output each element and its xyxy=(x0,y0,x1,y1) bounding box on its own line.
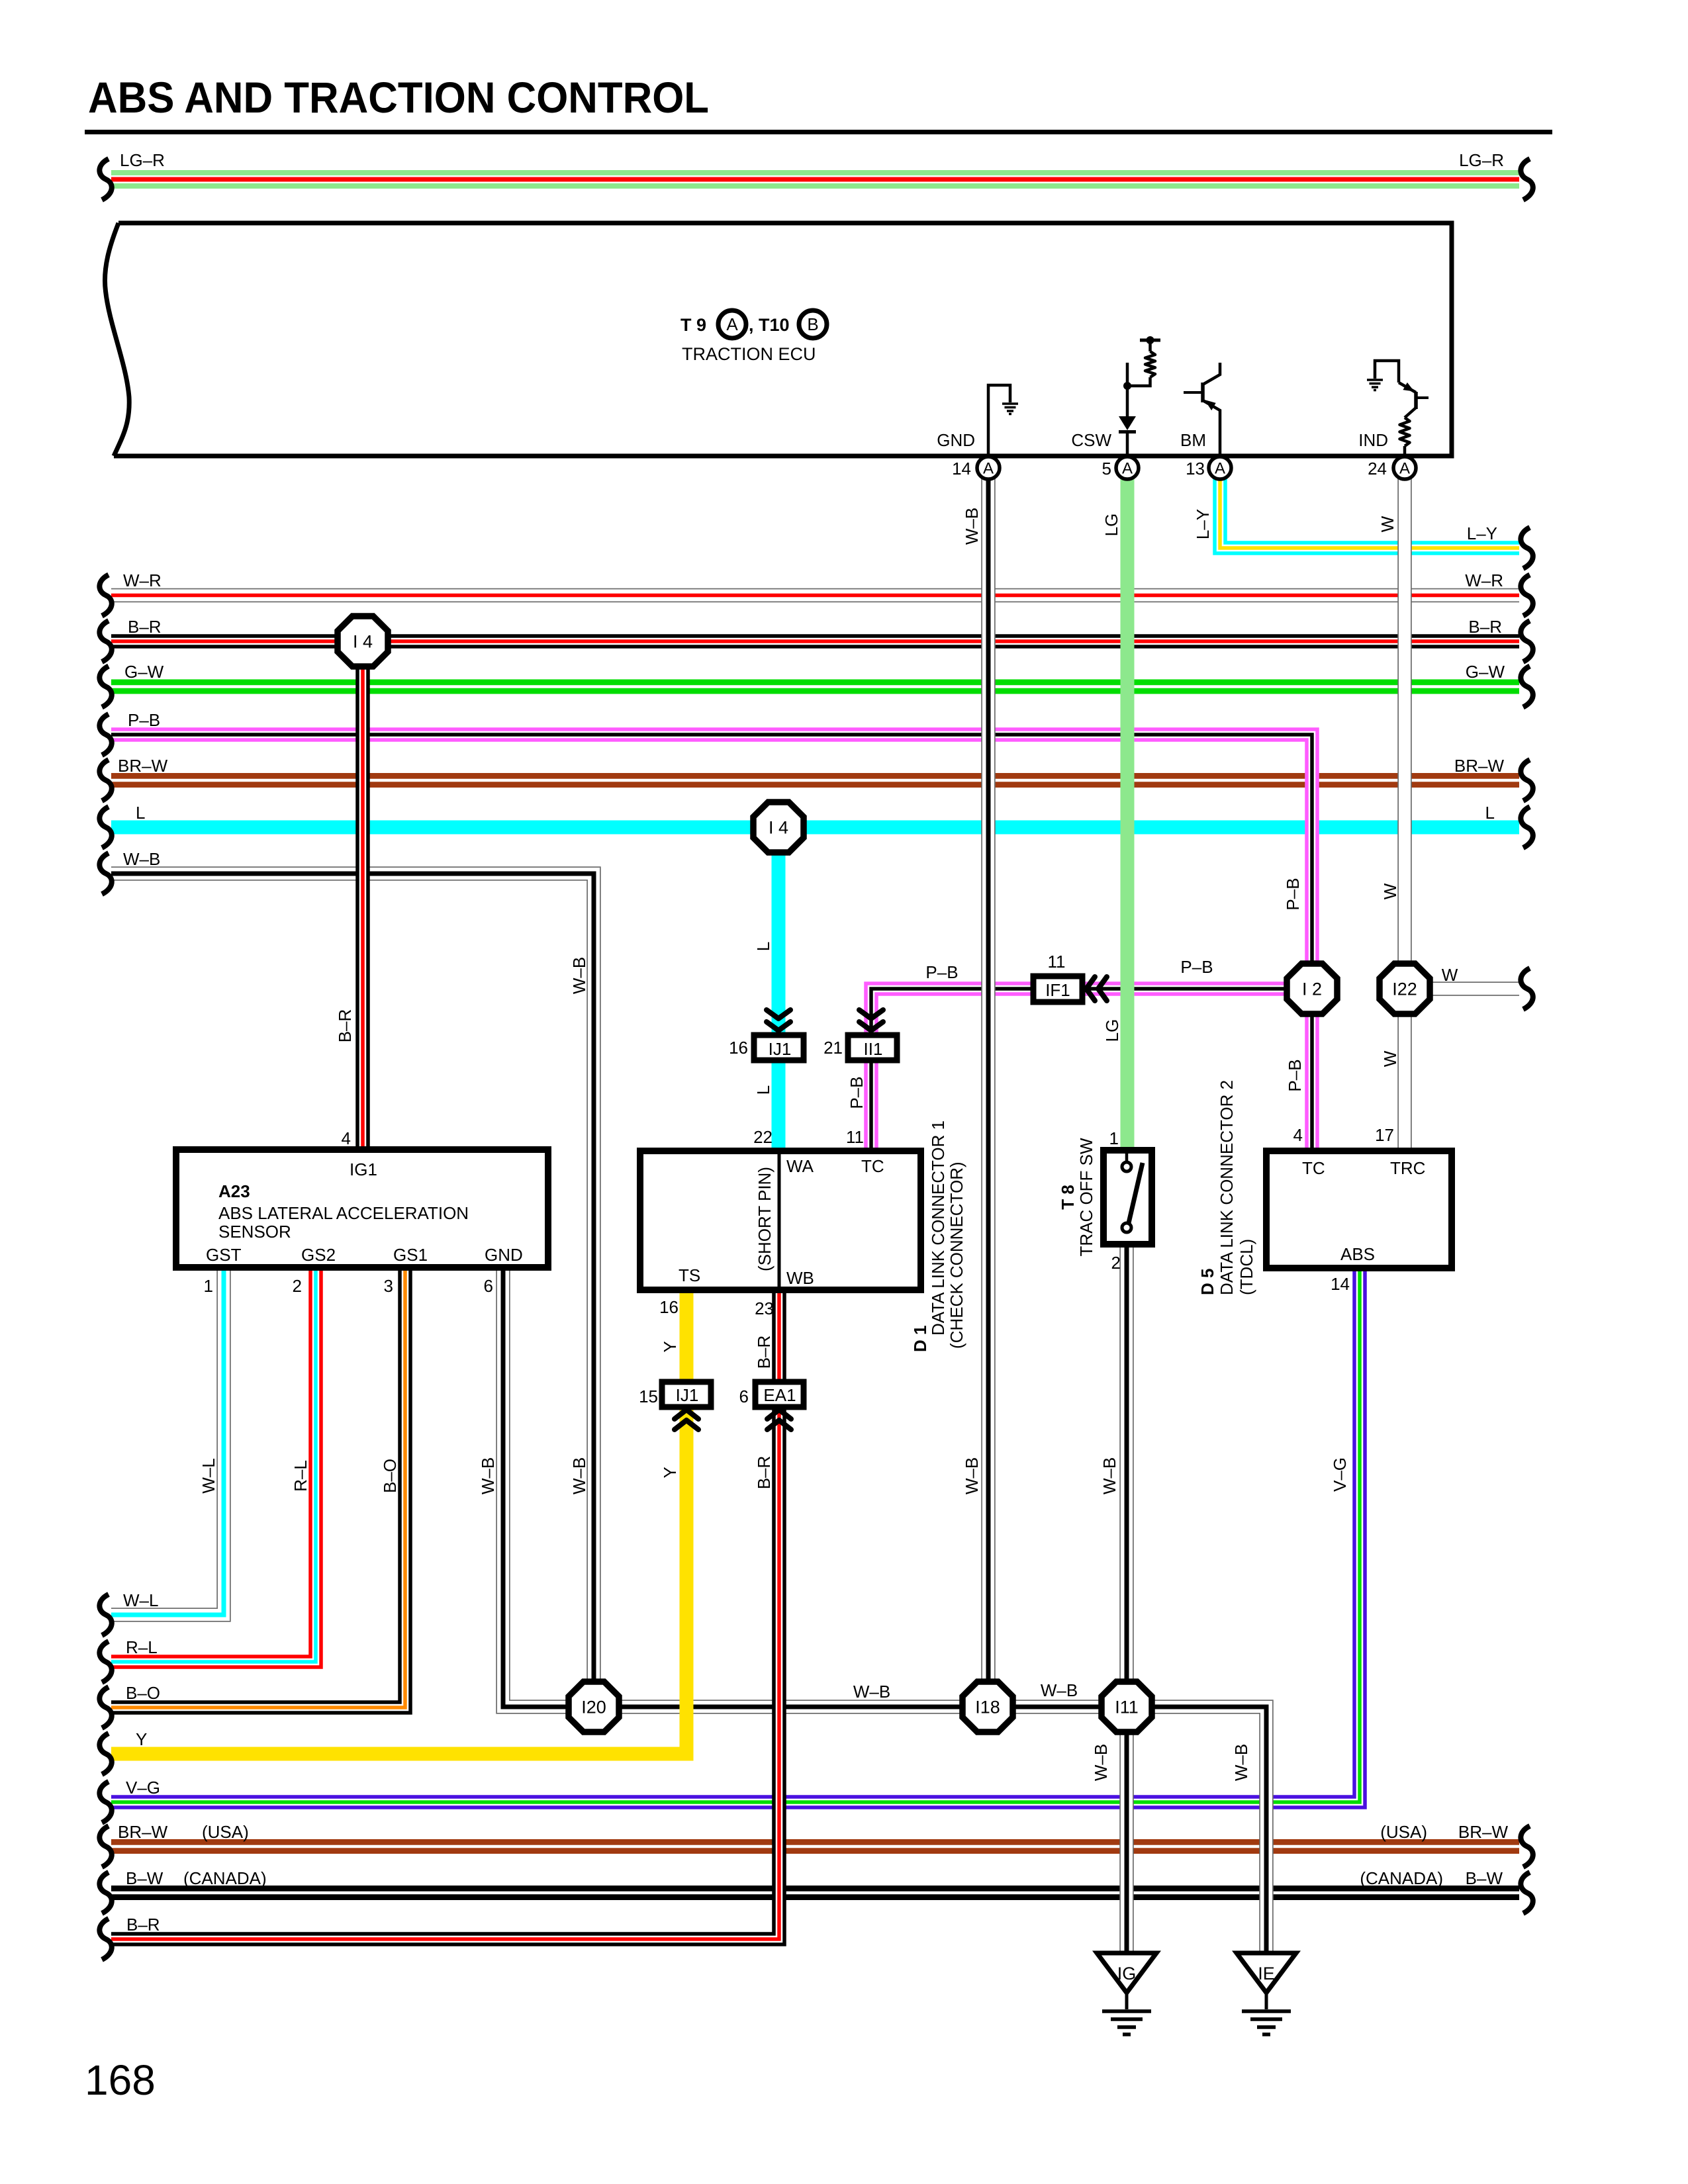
svg-text:(USA): (USA) xyxy=(1380,1822,1427,1842)
svg-text:IJ1: IJ1 xyxy=(676,1385,699,1405)
D1 data link connector 1 box xyxy=(640,1151,921,1290)
svg-text:14: 14 xyxy=(952,459,971,478)
svg-text:IG: IG xyxy=(1117,1964,1137,1983)
vertical net labels xyxy=(199,508,1400,1781)
wire W-L A23 GST to left xyxy=(111,1267,224,1615)
D1 rotated labels xyxy=(910,1120,966,1352)
svg-text:L: L xyxy=(753,1085,773,1095)
svg-text:IG1: IG1 xyxy=(350,1160,377,1179)
title rule xyxy=(85,130,1552,134)
svg-text:11: 11 xyxy=(1048,952,1066,972)
svg-text:P–B: P–B xyxy=(1285,1059,1305,1091)
connector I4 xyxy=(753,802,804,852)
T8 labels xyxy=(1058,1128,1121,1273)
wire Y D1 TS to IJ1 to left xyxy=(111,1290,686,1754)
ECU pin 5 CSW xyxy=(1071,430,1139,479)
svg-text:(CHECK CONNECTOR): (CHECK CONNECTOR) xyxy=(947,1161,966,1349)
svg-text:EA1: EA1 xyxy=(763,1385,796,1405)
svg-text:14: 14 xyxy=(1331,1274,1350,1294)
svg-text:L–Y: L–Y xyxy=(1467,523,1497,543)
traction ECU box T9/T10 xyxy=(105,223,1452,456)
svg-text:R–L: R–L xyxy=(126,1637,158,1657)
svg-text:B–R: B–R xyxy=(1468,617,1502,637)
svg-text:I18: I18 xyxy=(975,1698,1000,1717)
D5 pin numbers xyxy=(1293,1125,1394,1294)
junction IJ1 lower xyxy=(639,1382,711,1407)
ECU pin 14 GND xyxy=(937,430,1000,479)
svg-text:(CANADA): (CANADA) xyxy=(183,1868,267,1888)
svg-text:15: 15 xyxy=(639,1387,658,1406)
net labels right buses xyxy=(1360,150,1508,1888)
svg-text:W–R: W–R xyxy=(1465,570,1503,590)
svg-text:B–O: B–O xyxy=(380,1459,400,1493)
svg-text:V–G: V–G xyxy=(1330,1457,1350,1492)
svg-text:TS: TS xyxy=(679,1265,700,1285)
svg-text:B–W: B–W xyxy=(126,1868,164,1888)
wire W-B T8 to I11 to IG ground xyxy=(1119,1244,1134,1956)
wire W-B A23 GND to I20 xyxy=(503,1267,594,1707)
wire BR-W bottom bus (USA) xyxy=(111,1839,1519,1854)
ECU internal diode/resistor at CSW xyxy=(1119,336,1160,456)
svg-text:16: 16 xyxy=(729,1038,748,1058)
svg-text:22: 22 xyxy=(753,1127,773,1147)
svg-text:GS1: GS1 xyxy=(393,1245,428,1265)
svg-text:IND: IND xyxy=(1358,430,1388,450)
svg-text:L: L xyxy=(753,942,773,951)
svg-text:IF1: IF1 xyxy=(1045,980,1070,1000)
svg-text:TC: TC xyxy=(861,1156,884,1176)
svg-text:B–R: B–R xyxy=(754,1336,774,1369)
svg-text:4: 4 xyxy=(1293,1125,1303,1145)
wire B-O A23 GS1 to left xyxy=(111,1267,405,1707)
svg-text:W–B: W–B xyxy=(1091,1744,1111,1781)
svg-text:B–R: B–R xyxy=(754,1456,774,1490)
connector I20 xyxy=(569,1682,619,1732)
svg-text:ABS AND TRACTION CONTROL: ABS AND TRACTION CONTROL xyxy=(88,73,709,122)
svg-text:W–B: W–B xyxy=(962,508,982,545)
svg-text:IJ1: IJ1 xyxy=(769,1039,792,1059)
svg-text:DATA LINK CONNECTOR 2: DATA LINK CONNECTOR 2 xyxy=(1217,1080,1237,1295)
svg-text:5: 5 xyxy=(1102,459,1111,478)
svg-text:BR–W: BR–W xyxy=(118,756,168,776)
svg-text:W: W xyxy=(1380,883,1400,899)
svg-text:P–B: P–B xyxy=(1283,878,1303,910)
chevrons above IJ1 xyxy=(767,1010,790,1030)
wire B-R D1 WB to EA1 to left xyxy=(111,1290,779,1939)
svg-text:I 4: I 4 xyxy=(769,818,788,838)
svg-text:DATA LINK CONNECTOR 1: DATA LINK CONNECTOR 1 xyxy=(928,1120,948,1336)
wire R-L A23 GS2 to left xyxy=(111,1267,316,1662)
junction IJ1 upper xyxy=(729,1035,804,1060)
wire W ECU IND to I22 to D5 TRC xyxy=(1397,456,1412,1151)
svg-text:21: 21 xyxy=(823,1038,843,1058)
svg-text:I 4: I 4 xyxy=(353,632,373,652)
svg-text:G–W: G–W xyxy=(1466,662,1505,682)
wire BR-W bus xyxy=(111,773,1519,788)
wire L bus xyxy=(111,821,1519,835)
svg-text:168: 168 xyxy=(85,2056,156,2104)
A23 ABS lateral acceleration sensor box xyxy=(176,1150,548,1267)
wire B-R bus xyxy=(111,634,1519,649)
svg-text:W–B: W–B xyxy=(123,849,160,869)
svg-text:W–B: W–B xyxy=(1100,1457,1119,1494)
svg-text:Y: Y xyxy=(660,1341,680,1352)
harness breaks left xyxy=(99,159,111,1960)
wire L-Y ECU BM to right xyxy=(1220,456,1519,548)
svg-text:A: A xyxy=(726,314,738,334)
svg-text:GS2: GS2 xyxy=(301,1245,336,1265)
svg-text:6: 6 xyxy=(484,1276,493,1296)
svg-text:A: A xyxy=(1122,460,1133,478)
svg-text:LG–R: LG–R xyxy=(1459,150,1504,170)
wire W-B ECU GND to I18 xyxy=(981,456,996,1707)
svg-text:P–B: P–B xyxy=(925,962,958,982)
svg-text:WA: WA xyxy=(786,1156,814,1176)
chevrons below IJ1 lower xyxy=(675,1410,698,1430)
svg-text:(TDCL): (TDCL) xyxy=(1237,1239,1256,1295)
svg-text:CSW: CSW xyxy=(1071,430,1111,450)
junction EA1 xyxy=(739,1382,804,1407)
svg-text:(USA): (USA) xyxy=(202,1822,249,1842)
svg-text:W–L: W–L xyxy=(199,1458,218,1493)
svg-text:2: 2 xyxy=(1111,1253,1121,1273)
svg-text:A: A xyxy=(1399,460,1410,478)
connector I11 xyxy=(1102,1682,1152,1732)
svg-text:W–B: W–B xyxy=(853,1682,890,1702)
svg-text:TRAC OFF SW: TRAC OFF SW xyxy=(1076,1138,1096,1257)
svg-text:17: 17 xyxy=(1375,1125,1394,1145)
svg-text:A23: A23 xyxy=(218,1181,250,1201)
svg-text:L: L xyxy=(136,803,145,823)
svg-text:B–O: B–O xyxy=(126,1683,160,1703)
svg-text:BR–W: BR–W xyxy=(1454,756,1505,776)
svg-text:WB: WB xyxy=(786,1268,814,1288)
svg-text:D 1: D 1 xyxy=(910,1326,930,1352)
wire P-B bus to I2 to D5 pin4 xyxy=(111,735,1312,1151)
svg-text:SENSOR: SENSOR xyxy=(218,1222,291,1242)
svg-text:TC: TC xyxy=(1302,1158,1325,1178)
svg-text:T 9: T 9 xyxy=(680,315,706,335)
connector I2 xyxy=(1287,964,1337,1014)
svg-text:LG: LG xyxy=(1102,514,1121,537)
svg-text:BR–W: BR–W xyxy=(1458,1822,1509,1842)
row labels xyxy=(853,957,1458,1702)
ground IG xyxy=(1097,1953,1156,2034)
svg-text:B–W: B–W xyxy=(1466,1868,1503,1888)
svg-text:BM: BM xyxy=(1180,430,1206,450)
svg-text:LG–R: LG–R xyxy=(120,150,165,170)
svg-text:L: L xyxy=(1485,803,1495,823)
ECU pin 24 IND xyxy=(1358,430,1416,479)
svg-text:3: 3 xyxy=(384,1276,393,1296)
wire B-W bottom bus (CANADA) xyxy=(111,1886,1519,1900)
svg-text:W–B: W–B xyxy=(478,1457,498,1494)
svg-text:23: 23 xyxy=(755,1298,774,1318)
svg-text:W–R: W–R xyxy=(123,570,162,590)
svg-text:W–B: W–B xyxy=(1231,1744,1251,1781)
svg-text:GND: GND xyxy=(485,1245,523,1265)
svg-text:GND: GND xyxy=(937,430,975,450)
svg-text:P–B: P–B xyxy=(128,710,160,730)
svg-text:16: 16 xyxy=(659,1297,679,1317)
svg-text:2: 2 xyxy=(293,1276,302,1296)
connector I22 xyxy=(1380,964,1430,1014)
wire B-R I4 to A23 IG1 xyxy=(355,641,370,1150)
svg-text:R–L: R–L xyxy=(291,1460,310,1492)
A23 pin numbers xyxy=(204,1128,493,1296)
svg-text:I20: I20 xyxy=(581,1698,606,1717)
ground IE xyxy=(1237,1953,1296,2034)
svg-text:W–B: W–B xyxy=(1041,1680,1078,1700)
chevrons at IF1 xyxy=(1086,977,1107,1001)
junction II1 xyxy=(823,1035,897,1060)
svg-text:A: A xyxy=(983,460,994,478)
svg-text:24: 24 xyxy=(1368,459,1387,478)
svg-text:II1: II1 xyxy=(864,1039,883,1059)
connector I4 xyxy=(338,616,388,666)
svg-text:B–R: B–R xyxy=(128,617,162,637)
wire P-B I2 to IF1 to II1 to D1 pin11 xyxy=(871,989,1312,1151)
junction IF1 xyxy=(1033,952,1082,1002)
svg-text:B–R: B–R xyxy=(335,1009,355,1043)
svg-text:W: W xyxy=(1378,516,1397,532)
svg-text:ABS: ABS xyxy=(1340,1244,1375,1264)
wire V-G D5 ABS to left xyxy=(111,1268,1360,1802)
svg-text:A: A xyxy=(1215,460,1225,478)
svg-text:P–B: P–B xyxy=(1180,957,1213,977)
svg-text:W–B: W–B xyxy=(962,1457,982,1494)
wire W from I22 to right xyxy=(1405,981,1519,996)
svg-text:W–B: W–B xyxy=(569,1457,589,1494)
net labels left buses xyxy=(118,150,267,1934)
svg-text:V–G: V–G xyxy=(126,1778,160,1797)
svg-text:W–B: W–B xyxy=(569,957,589,994)
svg-text:W: W xyxy=(1380,1050,1400,1067)
svg-text:L–Y: L–Y xyxy=(1193,509,1213,539)
svg-text:13: 13 xyxy=(1186,459,1205,478)
svg-text:B: B xyxy=(807,314,818,334)
svg-text:P–B: P–B xyxy=(847,1076,867,1109)
svg-text:BR–W: BR–W xyxy=(118,1822,168,1842)
svg-text:Y: Y xyxy=(136,1729,147,1749)
T8 TRAC OFF SW box xyxy=(1103,1150,1152,1244)
svg-text:I11: I11 xyxy=(1115,1698,1139,1717)
svg-text:ABS LATERAL ACCELERATION: ABS LATERAL ACCELERATION xyxy=(218,1203,469,1223)
wire W-B bus to I20 xyxy=(111,874,594,1707)
svg-text:6: 6 xyxy=(739,1387,749,1406)
svg-text:D 5: D 5 xyxy=(1197,1269,1217,1295)
wire G-W bus xyxy=(111,680,1519,694)
svg-text:G–W: G–W xyxy=(124,662,164,682)
svg-text:1: 1 xyxy=(1109,1128,1119,1148)
svg-text:W: W xyxy=(1442,965,1458,985)
wire W-R bus xyxy=(111,588,1519,603)
D5 rotated labels xyxy=(1197,1080,1256,1295)
harness breaks right xyxy=(1521,159,1532,1913)
D5 data link connector 2 box xyxy=(1266,1151,1452,1268)
svg-text:I22: I22 xyxy=(1392,979,1417,999)
svg-text:B–R: B–R xyxy=(126,1915,160,1934)
ECU label T9 A , T10 B xyxy=(680,310,827,364)
svg-text:GST: GST xyxy=(206,1245,242,1265)
D1 pin numbers xyxy=(659,1127,864,1318)
svg-text:Y: Y xyxy=(660,1467,680,1478)
ECU internal transistor/resistor at IND xyxy=(1367,361,1429,456)
svg-text:4: 4 xyxy=(342,1128,351,1148)
svg-text:11: 11 xyxy=(846,1127,864,1147)
svg-text:IE: IE xyxy=(1258,1964,1275,1983)
svg-text:TRACTION ECU: TRACTION ECU xyxy=(682,344,816,364)
wire W-B I11 to IE ground xyxy=(1127,1707,1266,1956)
svg-text:LG: LG xyxy=(1102,1019,1122,1042)
chevrons above II1 xyxy=(859,1010,883,1030)
svg-text:(SHORT PIN): (SHORT PIN) xyxy=(755,1167,774,1271)
svg-text:I 2: I 2 xyxy=(1302,979,1322,999)
wire L I4 to IJ1 to D1 WA xyxy=(772,827,786,1151)
ECU pin 13 BM xyxy=(1180,430,1231,479)
wire LG ECU CSW to T8 xyxy=(1121,456,1135,1150)
ECU internal ground at GND xyxy=(988,385,1018,456)
svg-text:(CANADA): (CANADA) xyxy=(1360,1868,1443,1888)
svg-text:T 8: T 8 xyxy=(1058,1185,1078,1210)
wire LG-R top bus xyxy=(111,170,1519,189)
ECU internal transistor at BM xyxy=(1184,363,1220,456)
chevrons below EA1 xyxy=(767,1410,791,1430)
svg-text:TRC: TRC xyxy=(1390,1158,1425,1178)
connector I18 xyxy=(962,1682,1013,1732)
svg-text:, T10: , T10 xyxy=(749,315,790,335)
wire W-B I20 to I18 to I11 xyxy=(594,1700,1127,1714)
svg-text:W–L: W–L xyxy=(123,1590,158,1610)
svg-text:1: 1 xyxy=(204,1276,213,1296)
